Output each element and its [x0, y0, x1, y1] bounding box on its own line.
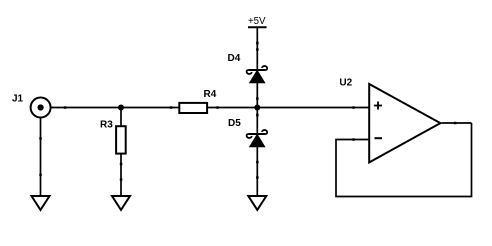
connector J1 — [31, 98, 51, 118]
pin dot D4 bottom pin end — [256, 97, 259, 100]
pin dot D4 top pin end — [256, 48, 259, 51]
ground under D5 — [248, 196, 266, 210]
node junction at center column — [254, 105, 260, 111]
pin dot power pin end — [256, 42, 259, 45]
pin dot D5 top pin end — [256, 114, 259, 117]
wire R3 column from junction to ground — [120, 108, 122, 197]
pin dot R4 left pin end — [170, 106, 173, 109]
pin dot ground pin end under R3 — [120, 178, 123, 181]
ground under R3 — [112, 196, 130, 210]
power +5V symbol bar — [248, 26, 267, 28]
svg-text:R3: R3 — [100, 119, 113, 130]
pin dot U2 minus input pin end — [352, 138, 355, 141]
diode D4 schottky cathode bar — [247, 66, 268, 74]
op-amp U2 — [369, 84, 440, 162]
svg-text:R4: R4 — [204, 89, 217, 100]
resistor R4 — [179, 103, 207, 113]
diode D5 triangle — [250, 135, 265, 147]
wire +5V column through D4 and D5 to ground — [256, 27, 258, 196]
diode D4 triangle — [250, 71, 265, 83]
op-amp U2 plus input sign — [374, 102, 382, 110]
diode D5 schottky cathode bar — [247, 130, 268, 138]
wire J1 bottom stem to ground — [40, 118, 42, 196]
pin dot R3 bottom pin end — [120, 163, 123, 166]
pin dot J1 right pin end — [64, 106, 67, 109]
svg-text:J1: J1 — [12, 93, 24, 104]
pin dot J1 bottom pin end — [39, 137, 42, 140]
pin dot U2 + input pin end — [352, 106, 355, 109]
node junction at R3 top — [118, 105, 124, 111]
pin dot ground pin end under J1 — [39, 174, 42, 177]
svg-text:+5V: +5V — [248, 16, 266, 27]
wire main horizontal net from J1 to U2 + input — [41, 107, 369, 109]
wire U2 output — [442, 122, 472, 124]
ground under J1 — [32, 196, 50, 210]
op-amp U2 minus input sign — [375, 137, 383, 139]
svg-text:U2: U2 — [339, 78, 352, 89]
pin dot U2 output pin end — [454, 122, 457, 125]
pin dot D5 bottom pin end — [256, 161, 259, 164]
resistor R3 — [116, 126, 126, 153]
pin dot ground pin end under D5 — [256, 176, 259, 179]
wire feedback loop from output to minus input — [336, 123, 472, 197]
pin dot R4 right pin end — [216, 106, 219, 109]
svg-text:D5: D5 — [228, 118, 241, 129]
svg-text:D4: D4 — [228, 53, 241, 64]
